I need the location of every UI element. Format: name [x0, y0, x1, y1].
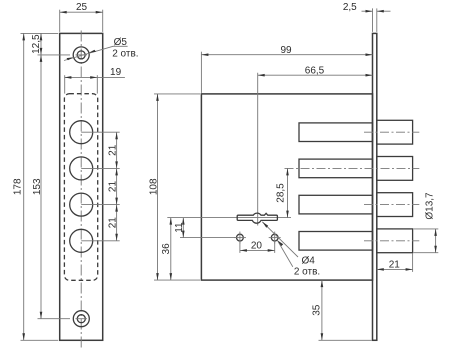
dim Ø13,7 (pin diameter) [414, 192, 439, 253]
dim 153 (hole to hole) [32, 55, 70, 319]
dim 21 between circles 3-4 [107, 205, 118, 241]
dim 35 (body bottom to faceplate bottom) [312, 280, 372, 340]
svg-text:25: 25 [76, 2, 88, 13]
svg-text:Ø13,7: Ø13,7 [425, 192, 436, 220]
faceplate side view [373, 33, 377, 340]
svg-text:2 отв.: 2 отв. [294, 267, 320, 278]
bolt 2 centerline [285, 167, 420, 169]
lock body outline [201, 94, 372, 280]
bolt 4 centerline [364, 240, 419, 242]
bolt 4 slide [299, 232, 373, 251]
svg-text:20: 20 [251, 241, 263, 252]
keyhole horizontal centerline [167, 217, 291, 219]
bolt 4 pin [377, 229, 413, 253]
svg-text:66,5: 66,5 [305, 66, 325, 77]
svg-text:2,5: 2,5 [343, 2, 357, 13]
extension lines from circle centers [81, 131, 120, 133]
dim 21 (pin protrusion) [377, 254, 413, 272]
dim 108 (body height) [149, 94, 201, 280]
dashed lock-body hidden outline [64, 94, 97, 281]
svg-text:21: 21 [107, 144, 118, 156]
bolt 1 slide [299, 123, 373, 142]
keyhole vertical centerline [257, 73, 259, 226]
screw hole bottom [73, 311, 89, 327]
dim 25 (plate width) [60, 2, 103, 32]
bolt hole circle 4 [70, 229, 93, 252]
dim 28,5 (bolt 2 axis to keyhole) [276, 168, 289, 217]
fixing hole left (Ø4) [237, 234, 244, 241]
bolt 3 slide [299, 195, 373, 214]
dim 2,5 (faceplate thickness) [343, 2, 391, 32]
keyhole outline [237, 213, 277, 223]
bolt 2 pin [377, 157, 413, 181]
dim 178 (plate height) [13, 33, 59, 340]
bolt hole circle 3 [70, 193, 93, 216]
svg-text:153: 153 [32, 178, 43, 195]
bolt 2 slide [299, 159, 373, 178]
plate vertical centerline [80, 31, 82, 349]
faceplate outline [60, 33, 103, 340]
bolt 3 pin [377, 193, 413, 217]
dim 66,5 (keyhole to faceplate) [258, 66, 373, 77]
svg-text:19: 19 [110, 67, 122, 78]
bolt hole circle 1 [70, 121, 93, 144]
svg-text:28,5: 28,5 [276, 183, 287, 203]
svg-text:36: 36 [161, 243, 172, 255]
dim 12,5 (top edge to hole) [21, 33, 71, 55]
svg-text:21: 21 [107, 181, 118, 193]
svg-text:35: 35 [312, 304, 323, 316]
svg-text:108: 108 [149, 178, 160, 195]
svg-text:178: 178 [13, 178, 24, 195]
bolt 1 pin [377, 120, 413, 144]
svg-text:21: 21 [389, 260, 401, 271]
dim 21 between circles 1-2 [107, 132, 118, 168]
dim 11 (keyhole to fixing holes) [174, 218, 236, 238]
dim 21 between circles 2-3 [107, 168, 118, 204]
bolt 1 centerline [364, 131, 419, 133]
screw hole top (Ø5) [73, 47, 89, 63]
dim 20 (between fixing holes) [240, 241, 275, 253]
svg-text:12,5: 12,5 [31, 34, 42, 54]
svg-text:11: 11 [174, 222, 185, 233]
leader Ø4 2 отв. : hole leader [277, 240, 320, 277]
dim 19 (dashed body width) [64, 67, 125, 94]
leader Ø5 2 отв. [64, 37, 139, 60]
bolt hole circle 2 [70, 157, 93, 180]
svg-text:21: 21 [107, 217, 118, 229]
leader Ø4 2 отв. : keyhole leader [262, 222, 298, 257]
svg-text:Ø5: Ø5 [114, 37, 128, 48]
dim 99 (body left to faceplate) [201, 45, 372, 93]
svg-text:Ø4: Ø4 [302, 255, 316, 266]
dim 36 (keyhole to body bottom) [161, 218, 172, 281]
fixing hole right (Ø4) [271, 234, 278, 241]
svg-text:99: 99 [280, 45, 292, 56]
svg-text:2 отв.: 2 отв. [112, 48, 138, 59]
bolt 3 centerline [364, 204, 419, 206]
